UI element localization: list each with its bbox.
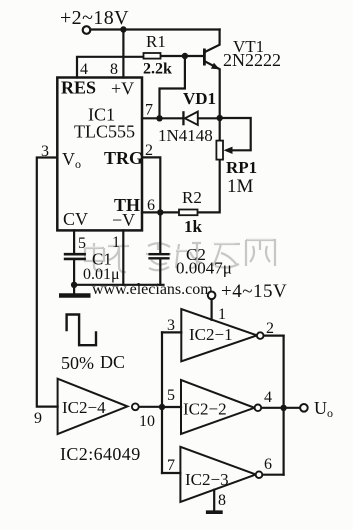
svg-text:1: 1 [112,234,120,251]
wire supply drop to IC1 pins [122,30,124,78]
svg-text:CV: CV [63,209,88,229]
junction dot right rail pin4 [280,405,286,411]
svg-text:2: 2 [266,320,274,337]
transistor VT1 emitter [206,62,220,118]
wire IC2-1 input [162,331,181,333]
wire wiper link [220,118,251,150]
svg-text:−V: −V [112,210,135,230]
wire C1 bottom lead [73,260,75,294]
capacitor C2 plates [148,254,169,258]
junction dot emitter-diode-RP1 [217,115,223,121]
svg-text:5: 5 [78,235,86,252]
svg-text:TLC555: TLC555 [74,122,135,142]
svg-text:2: 2 [145,142,153,159]
transistor VT1 base bar [203,49,206,66]
wire RP1 top [219,118,221,141]
wire IC2-2 input [162,406,181,408]
wire base jog to pin7 [160,56,185,118]
svg-text:IC2:64049: IC2:64049 [60,444,141,464]
diode VD1 cathode bar [182,111,184,125]
wire pin6 stub [142,211,179,213]
potentiometer RP1 body [216,141,223,160]
wire pin5 to C1 [73,230,75,252]
svg-text:7: 7 [145,102,153,119]
svg-text:VD1: VD1 [183,89,216,108]
wire C2 top lead [159,212,161,253]
inverter IC2-3 [180,447,255,502]
potentiometer RP1 wiper arrow [224,147,233,154]
svg-text:4: 4 [264,389,272,406]
node VDD +4~15V terminal [208,292,216,300]
junction dot C1 ground rail [71,282,77,288]
ground at IC2 pin8 [206,510,223,514]
svg-text:2.2k: 2.2k [143,61,172,78]
svg-text:8: 8 [110,61,118,78]
junction dot R1-base [182,53,188,59]
svg-text:R1: R1 [146,32,166,51]
wire right rail [283,336,285,475]
junction dot pin6 [157,209,163,215]
svg-text:5: 5 [167,387,175,404]
svg-text:+V: +V [111,79,134,99]
svg-text:1k: 1k [184,217,203,236]
wire IC2-3 input [162,472,180,474]
diode VD1 triangle [185,112,198,125]
wire VDD drop to pin1 [211,299,213,320]
svg-text:6: 6 [147,197,155,214]
transistor Q VT1 collector [206,30,220,52]
svg-text:IC2−3: IC2−3 [185,470,229,489]
ground at C1 [59,293,91,298]
svg-text:1: 1 [218,306,226,323]
wire diode to emitter junction [198,117,220,119]
svg-text:0.0047μ: 0.0047μ [176,259,232,278]
wire IC2-4 out to junction [139,406,162,408]
wire C2 bottom lead [159,260,161,285]
svg-text:RES: RES [61,78,96,98]
wire R1 right to base [161,55,204,57]
waveform 50% duty symbol [67,315,96,346]
svg-text:4: 4 [80,61,88,78]
wire IC2-2 output to Uo [261,407,300,409]
svg-text:R2: R2 [182,188,202,207]
watermark highlight layer [84,239,273,253]
junction dot pin7-diode [156,115,162,121]
svg-text:7: 7 [167,457,175,474]
svg-text:TRG: TRG [104,148,143,168]
svg-text:6: 6 [264,456,272,473]
resistor R1 [144,53,161,59]
wire pin1 drop [122,230,124,284]
IC1 TLC555 box [57,78,142,231]
inverter IC2-4 [58,379,128,434]
wire pin2 stub and drop [142,157,160,212]
transistor VT1 emitter arrowhead [211,63,220,70]
svg-text:1N4148: 1N4148 [158,126,213,145]
wire ground rail C1-C2 [73,284,164,286]
inverter IC2-1 [181,309,257,361]
wire IC2-1 output [264,335,284,337]
wire pin8 ground stub [213,490,215,511]
svg-text:3: 3 [41,143,49,160]
inverter IC2-2 [181,380,255,434]
wire RP1 bottom to R2 [198,160,220,213]
svg-text:www.elecians.com: www.elecians.com [92,281,213,298]
svg-text:9: 9 [34,410,42,427]
node Uo output terminal [300,404,308,412]
node +2~18V terminal [83,26,91,34]
svg-text:+4~15V: +4~15V [221,281,287,302]
svg-text:8: 8 [218,492,226,509]
svg-text:0.01μ: 0.01μ [83,266,120,283]
svg-text:2N2222: 2N2222 [223,50,281,70]
junction dot top rail [120,26,126,32]
junction dot IC2-4 output [159,404,165,410]
wire pin7 stub [142,117,182,119]
svg-text:1M: 1M [227,176,254,197]
svg-text:IC2−2: IC2−2 [183,400,227,419]
wire pin4-8 bracket [77,57,144,78]
resistor R2 [179,210,198,216]
wire pin3 out and left rail [37,158,58,407]
wire left distribution rail [161,332,163,473]
svg-text:DC: DC [100,352,125,372]
svg-text:10: 10 [139,413,155,430]
watermark chinese characters [85,240,275,272]
svg-text:50%: 50% [61,353,94,373]
svg-text:+2~18V: +2~18V [60,7,129,29]
svg-text:RP1: RP1 [226,158,257,177]
svg-text:IC2−1: IC2−1 [189,325,233,344]
svg-text:3: 3 [167,317,175,334]
svg-text:IC2−4: IC2−4 [62,398,106,417]
wire IC2-3 output [262,474,283,476]
capacitor C1 plates [64,254,86,259]
wire top supply rail [91,28,220,30]
